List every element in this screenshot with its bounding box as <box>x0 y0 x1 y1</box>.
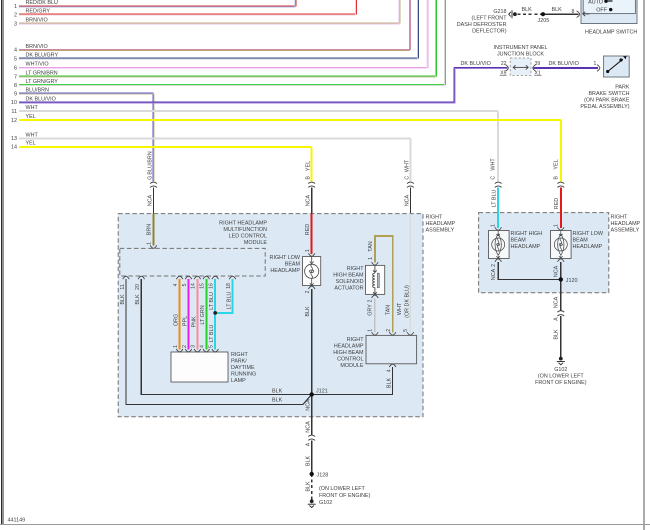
connector A left (below main box) <box>308 435 315 440</box>
svg-text:(ON PARK BRAKE: (ON PARK BRAKE <box>584 97 630 103</box>
right assembly: NCA wire high beam lamp pin 2 to J120 <box>498 262 561 280</box>
svg-text:MODULE: MODULE <box>244 240 267 246</box>
svg-text:1: 1 <box>147 242 153 245</box>
svg-text:RIGHT HEADLAMP: RIGHT HEADLAMP <box>219 221 267 227</box>
svg-text:11: 11 <box>120 284 126 289</box>
svg-text:4: 4 <box>14 48 17 54</box>
low beam lamp symbol (main assembly) <box>305 257 319 286</box>
svg-text:RIGHT: RIGHT <box>231 352 248 358</box>
svg-text:LT BLU: LT BLU <box>209 292 215 310</box>
svg-text:7: 7 <box>14 74 17 80</box>
svg-text:3: 3 <box>14 21 17 27</box>
svg-text:RIGHT: RIGHT <box>611 214 628 220</box>
diagonal joining lower BLK to J121 <box>303 394 312 404</box>
svg-text:LAMP: LAMP <box>231 378 246 384</box>
svg-text:NCA: NCA <box>306 399 312 411</box>
flare junction block pin 39 <box>533 65 536 72</box>
svg-text:2: 2 <box>386 329 392 332</box>
junction J128 <box>310 472 314 476</box>
wire 7 LT GRN/BRN <box>19 0 437 76</box>
svg-text:TAN: TAN <box>386 305 392 315</box>
svg-text:8: 8 <box>572 9 575 15</box>
svg-text:YEL: YEL <box>26 141 36 147</box>
svg-text:G102: G102 <box>319 500 332 506</box>
connector C (right, x498) <box>495 182 502 187</box>
svg-text:A: A <box>306 442 312 446</box>
svg-text:J128: J128 <box>317 473 329 479</box>
svg-text:NCA: NCA <box>553 265 559 277</box>
svg-text:4: 4 <box>173 283 179 286</box>
svg-text:LT GRN: LT GRN <box>200 305 206 324</box>
svg-text:FRONT OF ENGINE): FRONT OF ENGINE) <box>535 380 587 386</box>
svg-text:J120: J120 <box>566 278 578 284</box>
headlamp switch outer box <box>581 0 637 24</box>
solenoid actuator label <box>333 266 364 292</box>
wire 8 LT GRN/GRY <box>19 0 445 85</box>
LT BLU wire below connector C right <box>497 188 499 228</box>
svg-text:NCA: NCA <box>404 195 410 207</box>
svg-text:14: 14 <box>191 283 197 289</box>
svg-text:PEDAL ASSEMBLY): PEDAL ASSEMBLY) <box>580 104 629 110</box>
ground symbol G102 right <box>557 357 565 365</box>
svg-text:ACTUATOR: ACTUATOR <box>334 285 363 291</box>
svg-text:22: 22 <box>501 61 507 67</box>
BLK wire J205 to headlamp switch pin 8 <box>543 13 578 15</box>
TAN wire solenoid pin 1 to control module pin 2 <box>375 236 393 333</box>
svg-text:PARK/: PARK/ <box>231 359 247 365</box>
svg-text:6: 6 <box>14 66 17 72</box>
wire 1 RED/DK BLU <box>19 0 296 6</box>
wire LT BLU pin18 <box>215 279 232 313</box>
svg-text:ASSEMBLY: ASSEMBLY <box>426 227 455 233</box>
svg-text:GRY: GRY <box>367 304 373 316</box>
junction J205 <box>541 12 545 16</box>
solenoid actuator symbol <box>373 265 380 294</box>
G102 right text <box>535 367 587 386</box>
svg-text:LED CONTROL: LED CONTROL <box>229 234 267 240</box>
flare junction block pin 22 <box>505 65 508 72</box>
svg-text:LT BLU: LT BLU <box>491 190 497 208</box>
svg-text:9: 9 <box>14 92 17 98</box>
svg-text:BLK: BLK <box>135 294 141 305</box>
NCA black stub below connector B left <box>311 188 313 214</box>
wire 3 BRN/VIO <box>19 0 400 23</box>
wire ORG <box>179 279 181 349</box>
svg-text:PNK: PNK <box>191 316 197 327</box>
svg-text:BLK: BLK <box>552 7 563 13</box>
svg-text:5: 5 <box>182 283 188 286</box>
BLK wire J121 down to connector A <box>311 394 313 435</box>
RED wire into low beam headlamp pin 1 (main) <box>311 214 313 254</box>
svg-text:ASSEMBLY: ASSEMBLY <box>611 227 640 233</box>
low beam headlamp label (main) <box>270 255 301 274</box>
svg-text:20: 20 <box>135 284 141 290</box>
svg-text:15: 15 <box>200 283 206 289</box>
svg-text:WHT: WHT <box>404 159 410 172</box>
svg-text:1: 1 <box>593 61 596 67</box>
junction J120 <box>559 277 563 281</box>
junction J121 <box>310 392 314 396</box>
svg-text:HEADLAMP: HEADLAMP <box>611 221 641 227</box>
svg-text:DK BLU/VIO: DK BLU/VIO <box>26 96 56 102</box>
svg-text:3: 3 <box>191 345 197 348</box>
svg-text:PPL: PPL <box>182 316 188 326</box>
svg-text:1: 1 <box>305 249 311 252</box>
svg-text:4: 4 <box>386 369 392 372</box>
svg-text:BRN: BRN <box>147 224 153 235</box>
bottom page border <box>0 524 650 526</box>
svg-text:J205: J205 <box>538 18 550 24</box>
svg-text:RIGHT LOW: RIGHT LOW <box>573 231 604 237</box>
svg-text:RED/DK BLU: RED/DK BLU <box>26 0 58 6</box>
svg-text:RIGHT HIGH: RIGHT HIGH <box>511 231 543 237</box>
svg-text:(ON LOWER LEFT: (ON LOWER LEFT <box>538 373 585 379</box>
svg-text:JUNCTION BLOCK: JUNCTION BLOCK <box>497 52 544 58</box>
right assembly: NCA wire low beam lamp pin 2 through J120 down to connector A <box>560 262 562 311</box>
svg-text:C: C <box>491 176 497 180</box>
right headlamp assembly dashed box <box>479 213 609 293</box>
pin 1 flare LED module top <box>150 245 157 248</box>
DK BLU/VIO wire junction block to park brake switch pin 1 <box>534 67 599 68</box>
svg-text:BRAKE SWITCH: BRAKE SWITCH <box>588 91 629 97</box>
svg-text:G218: G218 <box>493 9 506 15</box>
GRY wire solenoid pin 2 to control module pin 1 <box>374 298 376 332</box>
junction dot LT BLU <box>213 311 217 315</box>
svg-text:YEL: YEL <box>306 161 312 171</box>
svg-text:YEL: YEL <box>553 159 559 169</box>
wire 13 WHT <box>19 138 411 182</box>
svg-text:HEADLAMP: HEADLAMP <box>511 244 541 250</box>
svg-text:1: 1 <box>173 345 179 348</box>
svg-text:5: 5 <box>403 329 409 332</box>
connector C (left, x410) <box>407 182 414 187</box>
control module label <box>333 337 364 369</box>
svg-text:TAN: TAN <box>368 241 374 251</box>
wire 9 BLU/BRN <box>19 93 153 181</box>
svg-text:BLK: BLK <box>553 329 559 340</box>
wire PPL <box>188 279 190 349</box>
BLK dashed wire J128 to G102 <box>311 474 313 500</box>
wire 11 WHT <box>19 111 499 182</box>
svg-text:8: 8 <box>14 83 17 89</box>
svg-text:NCA: NCA <box>491 268 497 280</box>
svg-text:DK BLU/GRY: DK BLU/GRY <box>26 53 59 59</box>
connector B (right, x561) <box>557 182 564 187</box>
svg-text:1: 1 <box>553 224 559 227</box>
pin flares control module top 1 2 5 <box>372 332 379 335</box>
svg-text:WHT/VIO: WHT/VIO <box>26 62 49 68</box>
svg-text:C: C <box>404 176 410 180</box>
svg-text:2: 2 <box>367 299 373 302</box>
svg-text:NCA: NCA <box>147 195 153 207</box>
svg-text:MODULE: MODULE <box>340 363 363 369</box>
flare park brake switch pin 1 <box>597 65 600 72</box>
right high beam headlamp symbol <box>492 231 505 259</box>
svg-text:13: 13 <box>11 136 17 142</box>
park brake switch text block <box>580 84 630 110</box>
svg-text:RIGHT LOW: RIGHT LOW <box>270 255 301 261</box>
svg-text:BLU/BRN: BLU/BRN <box>147 151 153 174</box>
svg-text:39: 39 <box>535 61 541 67</box>
wire 14 YEL <box>19 146 312 181</box>
svg-text:LT BLU: LT BLU <box>226 292 232 310</box>
pin flares solenoid actuator <box>372 262 379 265</box>
connector A right <box>557 311 564 316</box>
svg-text:WHT: WHT <box>397 302 403 315</box>
park brake switch contacts and lever <box>606 56 626 73</box>
svg-text:LT GRN/GRY: LT GRN/GRY <box>26 79 59 85</box>
wire 5 DK BLU/GRY <box>19 0 419 58</box>
right low beam headlamp box <box>551 231 572 259</box>
WHT (OR DK BLU) wire to control module pin 5 <box>409 214 411 333</box>
wire LT GRN <box>205 279 207 349</box>
svg-text:HEADLAMP: HEADLAMP <box>426 221 456 227</box>
svg-text:BLK: BLK <box>522 7 533 13</box>
svg-text:NCA: NCA <box>553 296 559 308</box>
right low beam headlamp symbol <box>554 231 567 259</box>
svg-text:YEL: YEL <box>26 114 36 120</box>
svg-text:11: 11 <box>11 109 17 115</box>
svg-text:RIGHT: RIGHT <box>426 214 443 220</box>
svg-text:A: A <box>553 317 559 321</box>
connector B (left, x312) <box>308 182 315 187</box>
svg-text:HEADLAMP: HEADLAMP <box>573 244 603 250</box>
svg-text:OFF: OFF <box>596 8 607 14</box>
svg-text:RIGHT: RIGHT <box>347 266 364 272</box>
wire 6 WHT/VIO <box>19 0 428 67</box>
svg-text:WHT: WHT <box>26 105 39 111</box>
svg-text:RIGHT: RIGHT <box>347 337 364 343</box>
svg-text:DK BLU/VIO: DK BLU/VIO <box>461 61 491 67</box>
headlamp switch internal arrow at pin 8 <box>583 12 590 16</box>
svg-text:NCA: NCA <box>306 421 312 433</box>
svg-text:18: 18 <box>226 283 232 289</box>
BRN wire into LED module pin 1 <box>153 214 155 246</box>
svg-text:BLU/BRN: BLU/BRN <box>26 88 49 94</box>
left page border double line <box>2 0 4 525</box>
ground symbol G102 left <box>308 499 316 507</box>
svg-text:DASH DEFROSTER: DASH DEFROSTER <box>457 22 507 28</box>
BLK wire from low beam lamp pin 2 to J121 <box>311 289 313 394</box>
NCA black stub below connector G <box>153 188 155 214</box>
svg-text:12: 12 <box>11 118 17 124</box>
headlamp switch AUTO contact dot and wiper <box>604 0 607 3</box>
svg-text:HIGH BEAM: HIGH BEAM <box>333 272 364 278</box>
svg-text:BEAM: BEAM <box>573 238 589 244</box>
svg-text:DK BLU/VIO: DK BLU/VIO <box>549 61 579 67</box>
LED control module inner dashed box <box>120 248 265 276</box>
svg-text:LT BLU: LT BLU <box>209 325 215 343</box>
svg-text:441149: 441149 <box>8 518 26 524</box>
svg-text:B: B <box>306 176 312 180</box>
svg-text:10: 10 <box>11 100 17 106</box>
svg-text:RUNNING: RUNNING <box>231 372 256 378</box>
svg-text:ORG: ORG <box>174 314 180 326</box>
svg-text:(LEFT FRONT: (LEFT FRONT <box>472 16 508 22</box>
svg-text:RED: RED <box>554 198 560 209</box>
svg-text:WHT: WHT <box>491 158 497 171</box>
svg-text:5: 5 <box>14 57 17 63</box>
pin flare control module bottom 4 <box>389 364 396 367</box>
svg-text:1: 1 <box>368 257 374 260</box>
svg-text:BLK: BLK <box>272 389 283 395</box>
NCA black stub below connector C left <box>409 188 411 214</box>
svg-text:PARK: PARK <box>615 84 630 90</box>
ground symbol G218 (points left) <box>509 10 517 18</box>
right high beam solenoid actuator box <box>366 265 385 294</box>
svg-text:BEAM: BEAM <box>285 262 301 268</box>
svg-text:BLK: BLK <box>272 397 283 403</box>
svg-text:(OR DK BLU): (OR DK BLU) <box>404 285 410 318</box>
svg-text:G102: G102 <box>554 367 567 373</box>
BLK wire connector A to J128 <box>311 440 313 474</box>
svg-text:2: 2 <box>491 264 497 267</box>
svg-text:FRONT OF ENGINE): FRONT OF ENGINE) <box>319 493 371 499</box>
svg-text:BLK: BLK <box>306 456 312 467</box>
LED control module label <box>219 221 267 247</box>
right page border <box>643 0 645 530</box>
pin flares low beam lamp (main) <box>308 253 315 256</box>
svg-text:2: 2 <box>182 345 188 348</box>
wire PNK <box>196 279 198 349</box>
svg-text:CONTROL: CONTROL <box>337 357 363 363</box>
svg-text:BLK: BLK <box>120 294 126 305</box>
svg-text:RED: RED <box>305 224 311 235</box>
wire 10 DK BLU/VIO <box>19 67 507 102</box>
svg-text:1: 1 <box>491 224 497 227</box>
svg-text:MULTIFUNCTION: MULTIFUNCTION <box>223 227 267 233</box>
headlamp switch OFF contact dot <box>609 8 612 11</box>
INSTRUMENT PANEL JUNCTION BLOCK label <box>493 45 547 58</box>
svg-text:INSTRUMENT PANEL: INSTRUMENT PANEL <box>493 45 547 51</box>
headlamp switch inner box <box>583 0 635 14</box>
connector at wire 9 (pin G) <box>150 182 157 187</box>
svg-text:BLK: BLK <box>386 378 392 389</box>
svg-text:G: G <box>147 176 153 180</box>
RED wire below connector B right <box>560 188 562 228</box>
flare headlamp switch pin 8 <box>577 11 580 18</box>
G218 dashed BLK wire to J205 <box>518 13 542 15</box>
G218 text block <box>457 9 507 35</box>
pin flares LED module bottom: 11 20 4 5 14 15 16 18 <box>123 276 130 279</box>
junction block internal arrow <box>513 65 528 69</box>
wire 4 BRN/VIO <box>19 0 410 49</box>
BLK wire from module pin 11 <box>126 279 303 405</box>
pin flares running lamp top: 1-5 <box>176 349 183 352</box>
svg-text:1: 1 <box>368 329 374 332</box>
svg-text:BLK: BLK <box>306 481 312 492</box>
rotated labels on vertical wires <box>120 151 560 491</box>
svg-text:5: 5 <box>209 345 215 348</box>
instrument panel junction block dashed box <box>510 58 531 75</box>
svg-text:NCA: NCA <box>306 195 312 207</box>
svg-text:BLK: BLK <box>305 306 311 317</box>
right headlamp multifunction module assembly dashed box (main) <box>118 214 423 417</box>
svg-text:LT GRN/BRN: LT GRN/BRN <box>26 70 58 76</box>
svg-text:WHT: WHT <box>26 132 39 138</box>
svg-text:1: 1 <box>14 4 17 10</box>
pin flares right lamps <box>495 227 502 230</box>
BLK wire from module pin 20 through J121 to control module pin 4 <box>141 279 392 394</box>
svg-text:DAYTIME: DAYTIME <box>231 365 255 371</box>
svg-text:RED/GRY: RED/GRY <box>26 9 51 15</box>
svg-text:J121: J121 <box>316 389 328 395</box>
svg-text:HEADLAMP: HEADLAMP <box>270 268 300 274</box>
svg-text:(ON LOWER LEFT: (ON LOWER LEFT <box>319 486 366 492</box>
svg-text:HEADLAMP SWITCH: HEADLAMP SWITCH <box>585 30 637 36</box>
svg-text:14: 14 <box>11 145 17 151</box>
svg-text:2: 2 <box>305 290 311 293</box>
wire 12 YEL <box>19 120 561 182</box>
right high beam headlamp box <box>489 231 510 259</box>
svg-text:DEFLECTOR): DEFLECTOR) <box>472 29 507 35</box>
right low beam headlamp box (main assembly) <box>303 257 321 286</box>
right headlamp high beam control module box <box>366 335 417 363</box>
svg-text:BRN/VIO: BRN/VIO <box>26 44 48 50</box>
svg-text:B: B <box>553 176 559 180</box>
svg-text:16: 16 <box>209 283 215 289</box>
svg-text:2: 2 <box>14 13 17 19</box>
svg-text:AUTO: AUTO <box>588 0 603 5</box>
svg-text:HEADLAMP: HEADLAMP <box>334 344 364 350</box>
park brake switch box <box>604 56 630 77</box>
svg-text:HIGH BEAM: HIGH BEAM <box>333 350 364 356</box>
svg-text:SOLENOID: SOLENOID <box>336 279 364 285</box>
BLK wire connector A to G102 right <box>560 316 562 357</box>
svg-text:BEAM: BEAM <box>511 238 527 244</box>
wire LT BLU pin16 <box>214 279 216 349</box>
left column circuit numbers 1-14 <box>11 4 17 151</box>
svg-text:BRN/VIO: BRN/VIO <box>26 17 48 23</box>
wire 2 RED/GRY <box>19 0 357 14</box>
right park/daytime running lamp box <box>171 352 228 382</box>
svg-text:4: 4 <box>200 345 206 348</box>
